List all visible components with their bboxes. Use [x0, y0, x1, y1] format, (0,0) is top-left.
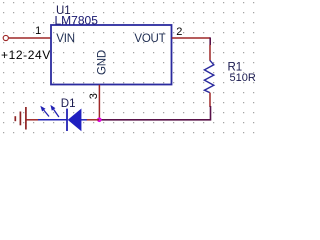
svg-text:LM7805: LM7805	[55, 14, 99, 28]
emission arrow 1	[44, 110, 49, 116]
pin 3 wire (GND pin down)	[98, 85, 100, 120]
svg-text:+12-24V: +12-24V	[1, 48, 51, 62]
ground symbol	[15, 107, 26, 130]
wire (corner dark segment at pin2)	[209, 37, 211, 45]
cathode lead	[38, 119, 67, 121]
pin 2 wire (VOUT to resistor)	[172, 37, 210, 39]
svg-text:2: 2	[176, 26, 182, 38]
emission arrow 2	[54, 109, 59, 117]
wire (terminal to VIN pin 1)	[9, 37, 51, 39]
svg-text:VOUT: VOUT	[134, 33, 165, 45]
wire (resistor bottom down)	[209, 93, 211, 107]
anode lead	[81, 119, 87, 121]
svg-text:3: 3	[88, 93, 100, 99]
wire (LED anode to junction)	[87, 119, 99, 121]
svg-text:1: 1	[35, 25, 41, 37]
svg-text:GND: GND	[96, 50, 108, 75]
triangle	[68, 109, 81, 131]
svg-text:VIN: VIN	[56, 33, 75, 45]
wire (down to resistor top)	[209, 45, 211, 61]
resistor R1	[204, 60, 213, 92]
LED D1	[38, 105, 87, 131]
junction	[97, 118, 102, 123]
wire (ground stem to LED)	[27, 119, 39, 121]
svg-text:510R: 510R	[230, 72, 256, 84]
regulator U1 body	[51, 25, 172, 85]
svg-text:D1: D1	[61, 98, 76, 110]
terminal (input)	[3, 35, 8, 40]
wire (bottom return, dark)	[101, 106, 211, 120]
cathode bar	[66, 109, 68, 131]
